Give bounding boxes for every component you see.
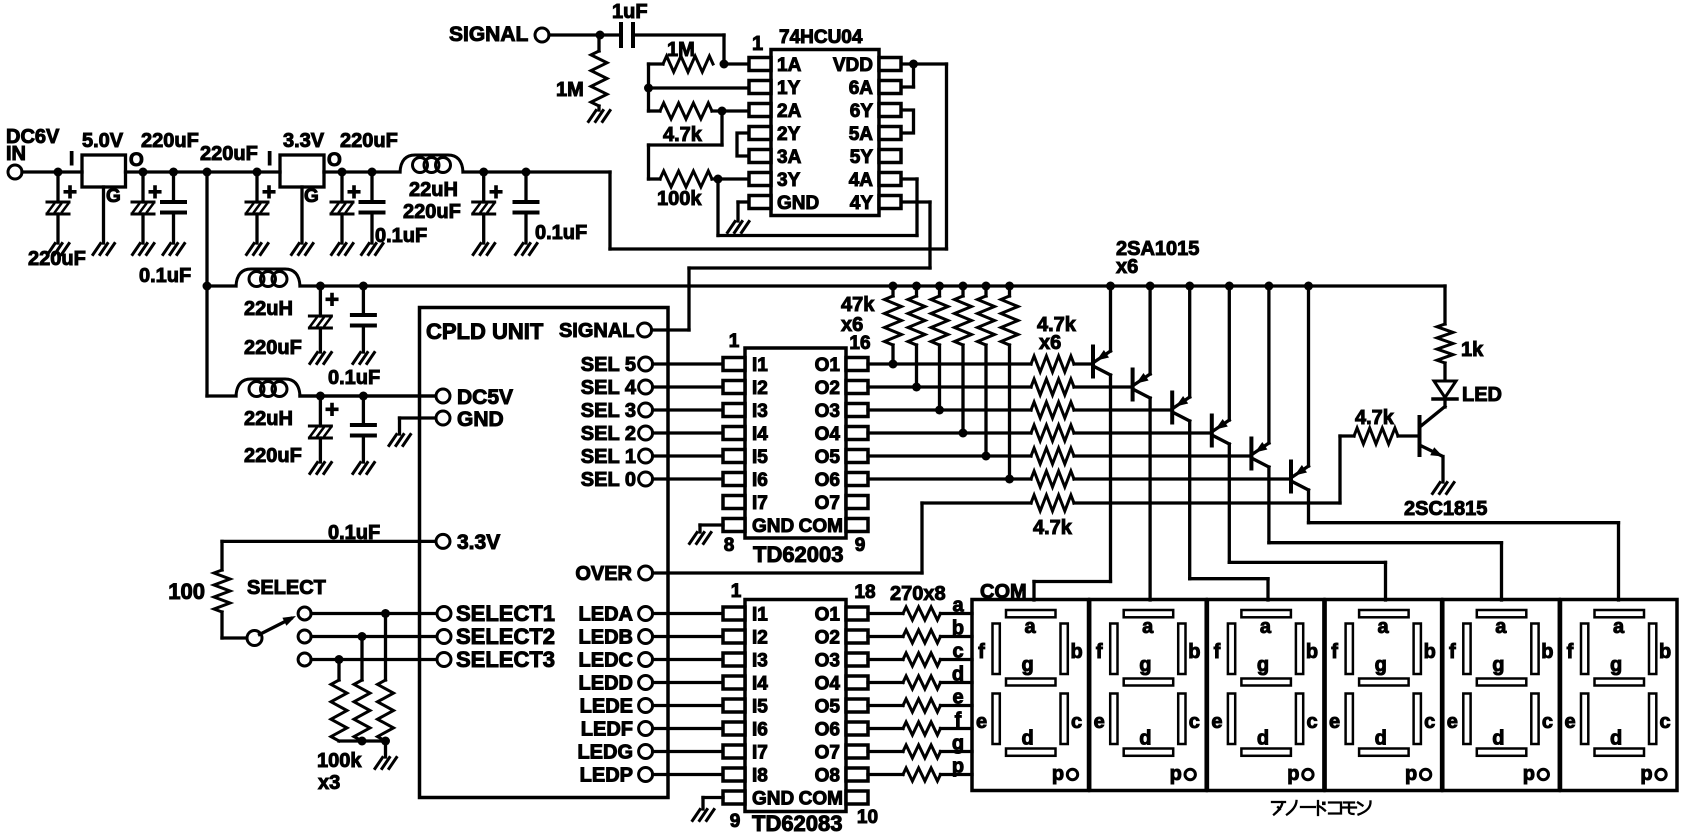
svg-text:SELECT1: SELECT1: [456, 601, 555, 626]
svg-text:18: 18: [854, 582, 875, 603]
svg-text:c: c: [952, 641, 963, 663]
svg-text:LEDB: LEDB: [579, 627, 633, 649]
svg-text:1: 1: [729, 331, 740, 352]
svg-text:a: a: [1142, 616, 1154, 638]
svg-text:e: e: [1564, 711, 1575, 733]
svg-text:1: 1: [752, 33, 763, 55]
svg-text:220uF: 220uF: [141, 130, 199, 152]
svg-text:1M: 1M: [667, 39, 695, 61]
svg-text:100k: 100k: [657, 188, 702, 210]
svg-text:47k: 47k: [841, 294, 875, 316]
svg-text:O5: O5: [815, 697, 841, 718]
svg-text:O3: O3: [815, 401, 840, 422]
svg-text:O1: O1: [815, 355, 841, 376]
svg-text:p: p: [1052, 763, 1064, 785]
svg-text:b: b: [1306, 641, 1318, 663]
svg-text:b: b: [1070, 641, 1082, 663]
svg-text:I7: I7: [752, 493, 768, 514]
svg-text:3.3V: 3.3V: [283, 130, 325, 152]
svg-text:I5: I5: [752, 697, 768, 718]
svg-text:VDD: VDD: [833, 55, 873, 76]
svg-text:+: +: [489, 179, 503, 206]
svg-text:1k: 1k: [1461, 339, 1484, 361]
svg-text:SIGNAL: SIGNAL: [449, 23, 529, 46]
svg-text:4.7k: 4.7k: [663, 124, 703, 146]
svg-text:1A: 1A: [777, 55, 802, 76]
svg-text:g: g: [1257, 654, 1269, 676]
svg-text:0.1uF: 0.1uF: [535, 222, 587, 244]
svg-text:COM: COM: [799, 516, 843, 537]
svg-text:f: f: [1331, 641, 1338, 663]
svg-text:x6: x6: [841, 314, 863, 336]
svg-text:220uF: 220uF: [340, 130, 398, 152]
svg-text:TD62003: TD62003: [753, 542, 844, 567]
svg-text:74HCU04: 74HCU04: [779, 27, 863, 48]
svg-text:O: O: [327, 150, 342, 171]
svg-text:c: c: [1306, 711, 1317, 733]
svg-text:100k: 100k: [317, 750, 362, 772]
svg-text:220uF: 220uF: [403, 201, 461, 223]
svg-text:220uF: 220uF: [200, 143, 258, 165]
svg-text:16: 16: [849, 333, 870, 354]
svg-text:3Y: 3Y: [777, 170, 801, 191]
svg-text:O5: O5: [815, 447, 841, 468]
svg-text:6Y: 6Y: [850, 101, 874, 122]
svg-text:f: f: [1567, 641, 1574, 663]
svg-text:SEL 3: SEL 3: [581, 400, 636, 422]
svg-text:5.0V: 5.0V: [82, 130, 124, 152]
svg-text:8: 8: [724, 535, 735, 556]
svg-text:220uF: 220uF: [244, 445, 302, 467]
svg-text:SELECT2: SELECT2: [456, 624, 555, 649]
svg-text:a: a: [1260, 616, 1272, 638]
svg-text:4Y: 4Y: [850, 193, 874, 214]
svg-text:GND: GND: [752, 516, 794, 537]
svg-text:6A: 6A: [849, 78, 874, 99]
svg-text:O8: O8: [815, 766, 840, 787]
svg-text:e: e: [1211, 711, 1222, 733]
svg-text:b: b: [1659, 641, 1671, 663]
svg-text:5Y: 5Y: [850, 147, 874, 168]
svg-text:9: 9: [730, 811, 741, 832]
svg-text:g: g: [1021, 654, 1033, 676]
svg-text:d: d: [1021, 728, 1033, 750]
svg-text:I: I: [69, 149, 74, 170]
svg-text:4.7k: 4.7k: [1033, 517, 1073, 539]
svg-text:4.7k: 4.7k: [1355, 407, 1395, 429]
svg-text:IN: IN: [6, 143, 26, 165]
svg-text:2A: 2A: [777, 101, 802, 122]
svg-text:a: a: [1024, 616, 1036, 638]
svg-text:LEDA: LEDA: [579, 604, 633, 626]
svg-text:I6: I6: [752, 470, 768, 491]
svg-text:O1: O1: [815, 605, 841, 626]
svg-text:0.1uF: 0.1uF: [375, 225, 427, 247]
svg-text:2Y: 2Y: [777, 124, 801, 145]
svg-text:220uF: 220uF: [28, 248, 86, 270]
svg-text:e: e: [1447, 711, 1458, 733]
svg-text:+: +: [325, 287, 339, 314]
svg-text:x6: x6: [1116, 256, 1138, 278]
svg-text:LEDD: LEDD: [579, 673, 633, 695]
svg-text:270x8: 270x8: [890, 583, 946, 605]
svg-text:f: f: [978, 641, 985, 663]
svg-text:I1: I1: [752, 605, 768, 626]
svg-text:I3: I3: [752, 401, 768, 422]
svg-text:O4: O4: [815, 674, 841, 695]
svg-text:f: f: [1096, 641, 1103, 663]
svg-text:SELECT3: SELECT3: [456, 647, 555, 672]
svg-text:LEDP: LEDP: [580, 765, 633, 787]
svg-text:G: G: [106, 186, 121, 207]
svg-text:I3: I3: [752, 651, 768, 672]
svg-text:+: +: [148, 179, 162, 206]
svg-text:22uH: 22uH: [244, 408, 293, 430]
svg-text:GND: GND: [777, 193, 819, 214]
svg-text:I2: I2: [752, 628, 768, 649]
svg-text:b: b: [1188, 641, 1200, 663]
svg-text:c: c: [1189, 711, 1200, 733]
svg-text:I4: I4: [752, 424, 768, 445]
svg-text:I: I: [267, 149, 272, 170]
svg-text:d: d: [1610, 728, 1622, 750]
svg-text:e: e: [952, 687, 963, 709]
svg-text:p: p: [1523, 763, 1535, 785]
svg-text:22uH: 22uH: [409, 179, 458, 201]
svg-text:e: e: [1329, 711, 1340, 733]
svg-text:3A: 3A: [777, 147, 802, 168]
svg-text:GND: GND: [457, 408, 504, 431]
svg-text:0.1uF: 0.1uF: [139, 265, 191, 287]
svg-text:g: g: [1375, 654, 1387, 676]
svg-text:100: 100: [168, 579, 205, 604]
svg-text:SEL 1: SEL 1: [581, 446, 636, 468]
svg-text:5A: 5A: [849, 124, 874, 145]
svg-text:+: +: [262, 179, 276, 206]
svg-text:3.3V: 3.3V: [457, 531, 500, 554]
svg-text:I1: I1: [752, 355, 768, 376]
svg-text:220uF: 220uF: [244, 337, 302, 359]
svg-text:22uH: 22uH: [244, 298, 293, 320]
svg-text:LEDF: LEDF: [581, 719, 633, 741]
svg-text:d: d: [952, 664, 964, 686]
svg-text:p: p: [1170, 763, 1182, 785]
svg-text:f: f: [955, 710, 962, 732]
svg-text:O4: O4: [815, 424, 841, 445]
svg-text:a: a: [1378, 616, 1390, 638]
svg-text:OVER: OVER: [575, 563, 632, 585]
svg-text:4A: 4A: [849, 170, 874, 191]
svg-text:f: f: [1449, 641, 1456, 663]
svg-text:c: c: [1424, 711, 1435, 733]
svg-text:O7: O7: [815, 743, 840, 764]
svg-text:d: d: [1257, 728, 1269, 750]
svg-text:g: g: [1610, 654, 1622, 676]
svg-text:d: d: [1139, 728, 1151, 750]
svg-text:10: 10: [857, 807, 878, 828]
svg-text:1: 1: [731, 581, 742, 602]
svg-text:CPLD UNIT: CPLD UNIT: [426, 319, 544, 344]
svg-text:O2: O2: [815, 628, 840, 649]
svg-text:g: g: [952, 733, 964, 755]
svg-text:I7: I7: [752, 743, 768, 764]
svg-text:g: g: [1139, 654, 1151, 676]
svg-text:SELECT: SELECT: [247, 577, 326, 599]
svg-text:SEL 0: SEL 0: [581, 469, 636, 491]
svg-text:LEDC: LEDC: [579, 650, 633, 672]
svg-text:e: e: [1094, 711, 1105, 733]
svg-text:O6: O6: [815, 470, 840, 491]
svg-text:LEDE: LEDE: [580, 696, 633, 718]
svg-text:+: +: [325, 397, 339, 424]
svg-text:a: a: [952, 595, 964, 617]
svg-text:a: a: [1613, 616, 1625, 638]
svg-text:b: b: [1541, 641, 1553, 663]
svg-text:I6: I6: [752, 720, 768, 741]
svg-text:p: p: [1640, 763, 1652, 785]
svg-text:x3: x3: [318, 772, 340, 794]
svg-text:f: f: [1214, 641, 1221, 663]
svg-text:0.1uF: 0.1uF: [328, 367, 380, 389]
svg-text:LED: LED: [1462, 384, 1502, 406]
svg-text:a: a: [1495, 616, 1507, 638]
svg-text:I4: I4: [752, 674, 768, 695]
svg-text:p: p: [1405, 763, 1417, 785]
svg-text:SEL 5: SEL 5: [581, 354, 636, 376]
svg-text:LEDG: LEDG: [577, 742, 633, 764]
svg-text:p: p: [952, 756, 964, 778]
svg-text:c: c: [1071, 711, 1082, 733]
svg-text:1uF: 1uF: [612, 1, 648, 23]
svg-text:I8: I8: [752, 766, 768, 787]
svg-text:1M: 1M: [556, 79, 584, 101]
svg-text:COM: COM: [799, 789, 843, 810]
svg-text:d: d: [1375, 728, 1387, 750]
svg-text:1Y: 1Y: [777, 78, 801, 99]
svg-text:I2: I2: [752, 378, 768, 399]
svg-text:d: d: [1492, 728, 1504, 750]
svg-text:O7: O7: [815, 493, 840, 514]
svg-text:GND: GND: [752, 789, 794, 810]
svg-text:g: g: [1492, 654, 1504, 676]
svg-text:SEL 2: SEL 2: [581, 423, 636, 445]
svg-text:O3: O3: [815, 651, 840, 672]
svg-text:b: b: [1424, 641, 1436, 663]
svg-text:c: c: [1542, 711, 1553, 733]
svg-text:c: c: [1660, 711, 1671, 733]
svg-text:SEL 4: SEL 4: [581, 377, 637, 399]
svg-text:DC5V: DC5V: [457, 386, 513, 409]
svg-text:TD62083: TD62083: [752, 811, 843, 836]
svg-text:x6: x6: [1039, 332, 1061, 354]
svg-text:b: b: [952, 618, 964, 640]
svg-text:+: +: [63, 179, 77, 206]
svg-text:O6: O6: [815, 720, 840, 741]
svg-text:G: G: [304, 186, 319, 207]
svg-text:9: 9: [855, 535, 866, 556]
svg-text:I5: I5: [752, 447, 768, 468]
svg-text:e: e: [976, 711, 987, 733]
svg-text:p: p: [1287, 763, 1299, 785]
svg-text:SIGNAL: SIGNAL: [559, 320, 635, 342]
svg-text:O2: O2: [815, 378, 840, 399]
svg-text:2SC1815: 2SC1815: [1404, 498, 1487, 520]
